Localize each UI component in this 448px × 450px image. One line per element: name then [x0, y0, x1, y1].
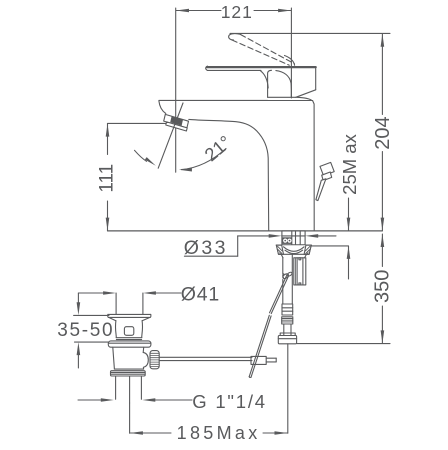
dimension 350 arrow top [381, 234, 385, 247]
dimension 35-50 ring top extension [75, 341, 109, 343]
dimension 350 arrow bottom [381, 330, 385, 343]
dimension 111 extension line top [108, 122, 167, 124]
drain overflow hole [124, 327, 133, 336]
mounting flange arc [284, 247, 305, 252]
faucet spout underside big curve [189, 119, 269, 230]
drain flange right lip [149, 314, 152, 317]
lift rod taper [316, 179, 326, 201]
dimension O33 leader underline [184, 255, 237, 257]
svg-text:204: 204 [372, 116, 394, 149]
shank outline below faucet [282, 231, 305, 245]
clevis hook [283, 274, 284, 278]
drain body right wall [141, 321, 144, 338]
pipe bottom nut line [278, 338, 296, 340]
drain tailpipe centerline [129, 376, 131, 403]
dimension 121 extension line left / angle reference vertical [175, 8, 177, 172]
faucet handle lever top edge [207, 66, 316, 68]
dimension O33 arrow right [305, 234, 318, 238]
pipe threaded band [282, 317, 293, 324]
mounting flange outline [276, 245, 311, 254]
faucet head to base arc [297, 97, 312, 100]
drain flange right slant [142, 318, 149, 321]
faucet spout top line [159, 99, 268, 101]
shank inner vertical c [299, 231, 301, 245]
lift rod knob back of faucet [320, 162, 334, 175]
dimension 204 arrow bottom [381, 218, 385, 231]
dimension O33 right shaft [317, 235, 336, 237]
mounting flange left hatch lines [278, 246, 283, 254]
dimension 25Max arrow down [347, 218, 351, 231]
dimension O41 arrow left [103, 291, 116, 295]
drain bottom nut line b [111, 373, 145, 375]
deck counter top line [108, 230, 383, 232]
dimension G1-1/4 arrow right [142, 398, 155, 402]
mounting flange right hatch block [304, 245, 311, 254]
drain lower body right wall [142, 347, 145, 352]
aerator outer [164, 114, 189, 128]
dimension O41 left shaft [78, 292, 104, 294]
drain flange left slant [109, 318, 116, 321]
dimension 35-50 arrow bottom [77, 342, 81, 355]
dimension 185Max line left segment [130, 432, 171, 434]
mounting flange arc inner [285, 250, 303, 253]
rod stub end [275, 358, 277, 362]
drain tailpipe left wall [115, 376, 117, 399]
svg-text:350: 350 [372, 270, 394, 303]
dimension 350 line upper segment [381, 234, 383, 267]
drain knurled nut [150, 351, 159, 369]
dimension 185Max arrow left [130, 431, 143, 435]
stream direction arrowhead [145, 157, 156, 166]
dimension O33 arrow left [269, 234, 282, 238]
dimension 185Max line right segment [263, 432, 288, 434]
rod stub bottom [266, 361, 276, 363]
dimension 121 line left segment [176, 10, 221, 12]
dimension 111 line upper segment [107, 124, 109, 155]
drain lower body left wall [113, 347, 115, 369]
svg-text:111: 111 [96, 164, 117, 193]
dimension O41 arrow right [143, 291, 156, 295]
pipe coupling line a [282, 307, 293, 309]
rod guide top notch [299, 258, 301, 260]
dimension 121 extension line right [290, 8, 292, 98]
pop-up rod tip cap [249, 376, 251, 379]
dimension 204 arrow top [381, 34, 385, 47]
rod guide inner line a [296, 258, 298, 285]
drain bottom nut line a [111, 371, 145, 373]
dimension 204 line lower segment [381, 152, 383, 231]
faucet handle lever tip cap [206, 66, 208, 70]
pipe coupling band [282, 304, 293, 315]
supply pipe right wall [291, 255, 293, 305]
drain flange top line [108, 313, 151, 315]
faucet head block right edge [315, 68, 317, 90]
faucet head bottom line [268, 96, 296, 98]
dimension 185Max extension line left [129, 403, 131, 433]
pipe lower neck left [283, 324, 285, 335]
drain bottom line [114, 368, 143, 370]
horizontal rod bottom line [159, 360, 252, 362]
shank hatch white circle left [283, 239, 287, 243]
drain flange second line [108, 316, 150, 318]
angle 21 arc [182, 149, 227, 170]
svg-text:G 1"1/4: G 1"1/4 [192, 391, 267, 412]
shank hatch dot left [284, 240, 286, 242]
dimension G1-1/4 left shaft [78, 399, 102, 401]
rod guide block [294, 258, 306, 285]
rod guide bottom notch [299, 283, 301, 285]
lift rod knob collar [322, 172, 332, 181]
dimension 121 arrow left [176, 9, 189, 12]
shank hatch dot right [289, 240, 291, 242]
svg-text:21°: 21° [200, 131, 235, 165]
mounting flange left hatch block [276, 245, 283, 254]
drain knurl ridges [150, 353, 159, 366]
svg-text:25M ax: 25M ax [339, 133, 360, 194]
dimension 25Max upper tail [348, 198, 350, 231]
svg-text:121: 121 [221, 2, 253, 22]
rod stub top [266, 357, 276, 359]
dimension O41 extension line left [115, 293, 117, 314]
water stream line [158, 103, 183, 168]
dimension 35-50 corner vertical [77, 293, 79, 303]
dimension O41 right shaft [155, 292, 181, 294]
faucet neck curve left [260, 70, 268, 88]
drain wide ring [108, 341, 151, 347]
drain wide ring inner line [109, 342, 151, 344]
horizontal rod top line [159, 356, 252, 358]
faucet base top line [268, 100, 313, 102]
drain band line a [116, 337, 142, 339]
faucet handle pivot cap [285, 56, 295, 66]
pipe coupling line b [282, 310, 293, 312]
stream direction arc [135, 150, 147, 161]
drain flange left lip [107, 314, 110, 317]
shank inner vertical b [295, 231, 297, 245]
faucet handle lever underside [207, 69, 261, 71]
drain body left wall [115, 321, 118, 338]
clevis eye second loop [287, 272, 293, 277]
mounting flange right hatch lines [305, 246, 310, 254]
dimension 111 line lower segment [107, 201, 109, 231]
dimension 111 arrow bottom [106, 218, 110, 231]
svg-text:Ø33: Ø33 [184, 237, 228, 259]
pop-up rod lower segment line b [249, 315, 269, 376]
pop-up rod upper segment line b [270, 275, 287, 313]
dimension 121 arrow right [278, 9, 291, 12]
svg-text:Ø41: Ø41 [181, 284, 220, 306]
pipe bottom collar [280, 333, 295, 336]
dimension O41 extension line right [142, 293, 144, 314]
supply pipe left wall [282, 258, 284, 304]
dimension 25Max arrow up below deck [347, 246, 351, 259]
dimension 35-50 arrow top [77, 302, 81, 315]
mounting flange top line [276, 244, 311, 246]
dimension 350 extension line bottom [297, 343, 390, 345]
shank hatch box dark [282, 237, 292, 244]
faucet head chamfer [296, 90, 316, 98]
aerator dark insert [170, 116, 183, 126]
faucet handle raised tip cap [229, 34, 241, 40]
rod connector block [251, 356, 266, 364]
dimension 111 arrow top [106, 124, 110, 137]
deck counter bottom line right of faucet [311, 245, 348, 247]
dimension 350 line lower segment [381, 306, 383, 343]
rod guide left column shade [294, 259, 296, 285]
mounting flange bottom left edge [281, 254, 283, 257]
svg-text:35-50: 35-50 [57, 320, 114, 341]
clevis eye [282, 273, 289, 280]
faucet body right edge [313, 101, 315, 231]
pop-up rod upper segment line a [271, 276, 288, 314]
faucet handle raised position dashed upper [241, 35, 295, 64]
dimension G1-1/4 arrow left [101, 398, 114, 402]
dimension O33 leader horizontal to arrow [238, 235, 269, 237]
dimension 25Max lower tail [348, 246, 350, 279]
drain side boss [143, 352, 148, 369]
drain band line b [116, 339, 141, 341]
drain bottom nut [111, 371, 146, 376]
aerator bottom lip [166, 122, 187, 131]
pipe bottom nut [278, 336, 296, 344]
dimension G1-1/4 right shaft [155, 399, 193, 401]
pop-up rod lower segment line a [251, 316, 271, 377]
shank hatch white circle right [287, 239, 291, 243]
dimension 204 line upper segment [381, 34, 383, 115]
dimension 121 line right segment [254, 10, 291, 12]
dimension O33 leader vertical [237, 236, 239, 256]
angle 21 arrowhead [179, 168, 192, 172]
dimension 35-50 flange top extension [74, 314, 109, 316]
dimension 35-50 lower tail [77, 354, 79, 368]
dimension O33 line through shank [282, 235, 306, 237]
pipe thread lines [282, 319, 293, 322]
faucet neck curve right [276, 71, 291, 97]
faucet handle raised position dashed lower [232, 40, 289, 65]
mounting flange bottom right edge [305, 254, 307, 257]
svg-text:185Max: 185Max [177, 423, 261, 443]
faucet spout tip curve [159, 101, 166, 114]
dimension 185Max extension line right / supply pipe centerline [287, 344, 289, 433]
rod guide inner line b [302, 258, 304, 285]
dimension 204 extension line top [230, 32, 390, 34]
faucet head block left edge [268, 70, 272, 97]
pipe lower neck right [290, 324, 292, 335]
shank inner vertical a [291, 231, 293, 245]
drain tailpipe right wall [140, 376, 142, 399]
dimension 185Max arrow right [275, 431, 288, 435]
